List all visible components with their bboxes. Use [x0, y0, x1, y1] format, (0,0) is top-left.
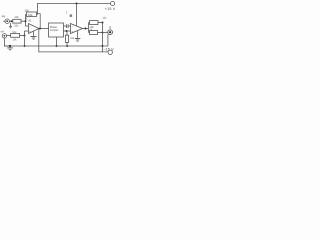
svg-text:10k: 10k	[70, 37, 75, 40]
resistor R1 feedback box	[27, 12, 37, 17]
wire feedback stub	[38, 13, 41, 15]
wire R6 to node B	[20, 34, 25, 36]
wire jack2 to R6	[7, 35, 11, 37]
wire feedback vertical to output node	[39, 14, 41, 29]
resistor R6	[11, 34, 20, 38]
node R3 tap	[66, 30, 68, 32]
wire jack1 to R2	[9, 20, 12, 22]
op-amp U1	[29, 24, 40, 34]
wire node A down into inverting input	[26, 21, 29, 26]
svg-text:10k: 10k	[13, 38, 18, 41]
node ground rail end	[102, 45, 104, 47]
smudge label above node	[103, 17, 107, 19]
svg-text:A1: A1	[28, 18, 32, 22]
resistor R5	[90, 31, 98, 35]
node output U3	[85, 28, 87, 30]
jack J1 input	[5, 19, 9, 23]
node output U1	[39, 28, 41, 30]
node R4	[102, 22, 104, 24]
wire into noninverting input	[25, 30, 29, 32]
svg-text:10k: 10k	[24, 9, 29, 13]
resistor R2 input	[13, 19, 21, 23]
terminal output	[108, 30, 113, 35]
wire divider drop to -15V rail	[39, 29, 108, 52]
svg-text:10k: 10k	[28, 13, 33, 17]
wire box out top	[64, 25, 67, 27]
node B junction	[24, 34, 26, 36]
svg-text:+15 V: +15 V	[105, 7, 116, 11]
resistor R4	[90, 21, 99, 25]
wire R3 bottom lead	[66, 43, 68, 47]
ground under U1	[33, 31, 35, 36]
wire faint stub above cap	[66, 11, 68, 14]
wire U1 output to box	[39, 28, 49, 30]
svg-text:10k: 10k	[14, 15, 19, 19]
label R1 designator	[25, 17, 27, 19]
wire R4 right lead	[98, 22, 103, 24]
ground main symbol	[9, 45, 11, 47]
wire R1 right lead	[37, 14, 38, 16]
wire box bottom pin	[56, 37, 58, 46]
node R3 ground	[66, 45, 68, 47]
wire jack1 left stub	[3, 20, 5, 22]
wire R5 right lead	[98, 32, 103, 34]
label U3 glyph	[70, 14, 73, 17]
svg-text:compar: compar	[50, 29, 59, 32]
node jack1 branch	[11, 20, 13, 22]
node on ground rail	[24, 45, 26, 47]
wire R3 top lead	[66, 31, 68, 35]
wire output jack shell drop	[107, 34, 109, 46]
ground mini under jack1	[10, 23, 12, 26]
wire R1 left lead down to input node	[26, 15, 27, 22]
node junction on top rail	[76, 3, 78, 5]
ground under U3	[77, 31, 79, 38]
wire top +15V rail	[38, 4, 111, 15]
svg-text:sig: sig	[2, 14, 6, 18]
node box ground	[56, 45, 58, 47]
wire split vertical	[88, 23, 90, 33]
wire R2 to node A	[21, 20, 26, 22]
wire rail link down	[102, 46, 104, 52]
smudge label above terminal	[110, 26, 111, 29]
node A junction	[25, 20, 27, 22]
op-amp U3	[71, 24, 83, 34]
svg-text:ref: ref	[1, 29, 5, 33]
wire jack2 sleeve drop	[4, 38, 10, 46]
wire right bus vertical	[102, 23, 104, 47]
svg-text:+: +	[29, 29, 31, 33]
jack J2 input	[2, 34, 6, 38]
svg-text:−15 V: −15 V	[103, 48, 114, 52]
wire noninverting input riser	[24, 31, 26, 46]
terminal +15V	[111, 1, 115, 5]
capacitor C1	[65, 24, 67, 28]
resistor R3 vertical	[65, 35, 68, 42]
box U2 converter	[49, 23, 64, 37]
wire box out bottom	[64, 30, 71, 32]
node R5 out	[102, 32, 104, 34]
terminal -15V	[108, 50, 112, 54]
svg-text:10k: 10k	[14, 24, 19, 27]
wire R5 left lead	[89, 32, 90, 34]
wire cap to U3	[68, 25, 70, 27]
wire U3 output	[83, 28, 89, 30]
wire to output terminal	[103, 32, 108, 34]
wire U3 V+ pin from top rail	[76, 4, 78, 26]
wire R4 left lead	[89, 22, 90, 24]
ground rail	[4, 45, 108, 47]
